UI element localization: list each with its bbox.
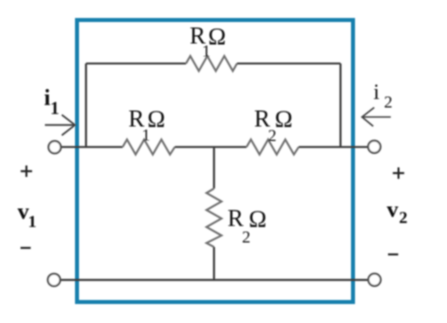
label i2 <box>373 79 392 112</box>
wire top branch horizontal left <box>86 62 186 64</box>
resistor R2 middle <box>247 140 299 155</box>
label minus v2 <box>388 253 398 255</box>
label plus v2 <box>393 167 404 178</box>
wire top branch left vertical <box>85 64 87 148</box>
two-port network box <box>77 20 353 302</box>
wire middle left <box>61 146 123 148</box>
wire shunt upper <box>213 147 215 189</box>
wire shunt lower <box>213 247 215 280</box>
svg-text:v: v <box>387 197 399 222</box>
resistor R1 middle <box>123 140 175 155</box>
label R2 ohm middle <box>254 106 293 145</box>
svg-text:2: 2 <box>384 93 393 112</box>
terminal port 1 bottom <box>48 274 60 286</box>
terminal port 1 top <box>49 141 61 153</box>
svg-text:Ω: Ω <box>147 107 165 133</box>
label i1 <box>44 85 59 118</box>
wire middle center <box>175 146 247 148</box>
svg-text:Ω: Ω <box>249 207 267 233</box>
arrow i1 <box>45 115 75 136</box>
label R1 ohm top <box>190 24 226 61</box>
label plus v1 <box>21 166 32 177</box>
svg-text:Ω: Ω <box>275 107 293 133</box>
svg-text:1: 1 <box>50 98 59 118</box>
wire middle right <box>299 146 368 148</box>
svg-text:2: 2 <box>399 208 408 227</box>
label v1 <box>17 199 36 231</box>
label v2 <box>387 197 408 227</box>
label R2 ohm shunt <box>227 206 266 246</box>
resistor R2 shunt vertical <box>207 189 222 248</box>
label R1 ohm middle <box>128 106 165 144</box>
terminal port 2 bottom <box>368 274 380 286</box>
terminal port 2 top <box>368 141 380 153</box>
svg-text:1: 1 <box>28 212 37 231</box>
resistor R1 top <box>186 56 237 71</box>
svg-text:Ω: Ω <box>208 24 226 50</box>
wire bottom <box>60 279 368 281</box>
arrow i2 <box>362 108 391 127</box>
wire top branch horizontal right <box>237 62 341 64</box>
svg-text:i: i <box>373 79 379 104</box>
wire top branch right vertical <box>339 64 341 148</box>
label minus v1 <box>21 247 31 249</box>
